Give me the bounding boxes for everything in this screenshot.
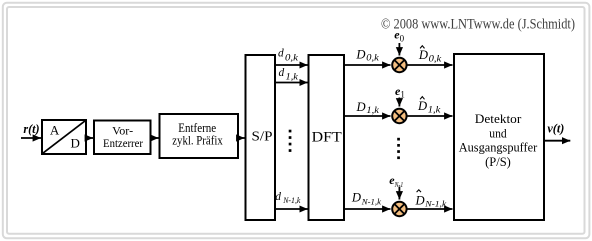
svg-text:Detektor: Detektor: [475, 111, 522, 126]
svg-text:zykl. Präfix: zykl. Präfix: [172, 134, 223, 148]
svg-text:(P/S): (P/S): [485, 154, 511, 169]
svg-text:© 2008 www.LNTwww.de (J.Schmid: © 2008 www.LNTwww.de (J.Schmidt): [381, 16, 575, 32]
svg-text:DFT: DFT: [312, 130, 342, 146]
svg-text:r(t): r(t): [23, 122, 39, 136]
svg-text:Ausgangspuffer: Ausgangspuffer: [459, 140, 538, 155]
svg-text:Entzerrer: Entzerrer: [103, 136, 143, 150]
svg-text:und: und: [489, 126, 507, 141]
svg-text:A: A: [50, 123, 60, 138]
svg-text:v(t): v(t): [547, 121, 564, 135]
svg-text:S/P: S/P: [252, 130, 273, 145]
svg-text:D: D: [71, 136, 80, 151]
